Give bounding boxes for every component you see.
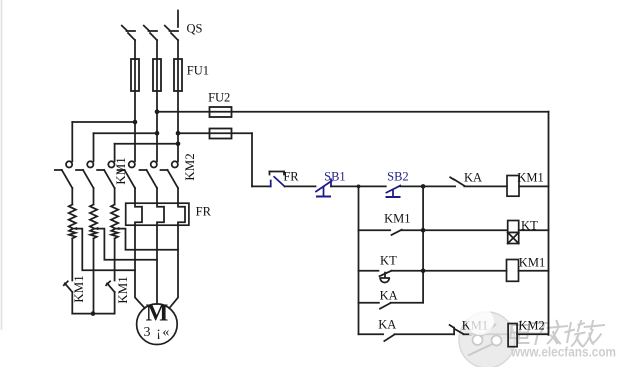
control row 1 wire left (252, 185, 271, 187)
wire row1 coil to rail (519, 185, 549, 187)
time relay coil KT (508, 221, 519, 244)
contactor KM1 main contact pole 3 (97, 161, 115, 188)
node start branch left (357, 185, 361, 189)
wire inside FU2 upper (210, 111, 232, 113)
wire row4 KA to KM1 NC (395, 333, 455, 335)
watermark pin head wash (467, 308, 494, 335)
watermark text 电子发烧友 (approximated strokes) (509, 320, 606, 347)
wire motor lead U (135, 225, 145, 308)
wire phase L3 QS to KM2 contact (177, 40, 179, 161)
label KT contact row3 (380, 254, 397, 269)
wire KM1 pole2 to resistor R2 (93, 188, 95, 205)
wire L1 branch to KM1 contactor (72, 121, 135, 123)
label FR main (196, 205, 211, 220)
wire L2 branch to KM1 contactor (94, 132, 158, 134)
control branch rail (422, 186, 424, 302)
relay contact KA (NO) row4 (384, 335, 394, 342)
wire KM2 pole3 to FR heater 3 (177, 188, 179, 203)
FR heater element 1 (135, 203, 142, 225)
resistor R3 lower section (111, 229, 118, 239)
fuse FU1 pole 2 (153, 59, 161, 91)
label KM1 shorting b vertical (115, 276, 131, 303)
label SB1 (324, 170, 346, 185)
wire phase L2 QS to KM2 contact (156, 40, 158, 161)
wire KM1 pole3 to resistor R3 (114, 188, 116, 205)
wire row1 SB2 to KA (400, 185, 455, 187)
wire inside FU2 lower (210, 132, 232, 134)
pushbutton SB2 (start, NO) (386, 186, 400, 197)
label FU1 (187, 64, 209, 79)
time relay contact KT (on-delay NO) (380, 271, 392, 283)
contactor KM1 shorting contact a (64, 281, 73, 292)
contactor interlock contact KM1 (NC) (450, 325, 464, 334)
contactor coil KM1 (507, 176, 519, 197)
relay contact KA (NO) parallel branch (380, 303, 391, 309)
wire R3 tail (114, 239, 116, 281)
relay contact KA (NO) row1 (450, 177, 464, 186)
node L3 to FU2b (176, 131, 181, 136)
thermal relay FR NC contact (270, 172, 285, 187)
contactor KM1 main contact pole 2 (76, 161, 94, 188)
node L2 branch (155, 131, 160, 136)
node L1 branch (133, 120, 138, 125)
contactor KM1 main contact pole 1 (55, 161, 73, 188)
watermark logo disc (elecfans) (459, 312, 515, 367)
control row 3b wire left (359, 302, 379, 304)
wire tap R3 to motor line W (115, 229, 178, 250)
wire L3 branch to KM1 contactor (115, 143, 178, 145)
label KM1 contactor vertical (113, 157, 129, 184)
wire below contact b (114, 292, 116, 314)
label KA row4 (378, 318, 396, 333)
wire row4 KM2 coil to rail (517, 333, 548, 335)
left edge artifact line (1, 0, 3, 330)
FR heater element 3 (178, 203, 185, 225)
disconnect switch QS pole 3 (165, 26, 178, 41)
node row3 branch (421, 269, 426, 274)
node start branch right (421, 184, 426, 189)
label SB2 (387, 169, 409, 184)
contactor coil KM2 (508, 324, 517, 347)
wire L2 to control top rail (157, 111, 549, 113)
resistor R2 lower section (90, 229, 97, 239)
thermal relay FR heater box (126, 203, 189, 225)
fuse FU2 upper (210, 107, 232, 117)
wire KM1 pole1 to resistor R1 (71, 188, 73, 205)
node L3 branch (176, 142, 181, 147)
label KM1 aux row2 (384, 211, 410, 226)
wire R1 tail (71, 239, 73, 281)
contactor KM2 main contact pole 3 (161, 161, 179, 188)
label FR control (283, 169, 298, 184)
contactor coil KM1 (second) (507, 260, 519, 282)
resistor R2 upper section (90, 205, 97, 229)
FR heater element 2 (157, 203, 164, 225)
contactor aux contact KM1 (self hold, NO) (392, 230, 402, 235)
motor letter M (146, 300, 169, 327)
motor M 3-phase (137, 304, 178, 345)
wire row3b to branch rail (391, 302, 424, 304)
label KM1 NC row4 (462, 318, 488, 333)
label KA row3b (380, 289, 398, 304)
wire motor lead W (169, 225, 178, 308)
wire L3 incoming stub (177, 11, 179, 28)
label QS (187, 21, 203, 36)
wire row4 under watermark (washed by logo) (470, 333, 508, 335)
label KM1 shorting a vertical (71, 275, 87, 302)
disconnect switch QS pole 2 (144, 26, 157, 41)
label KM1 coil row1 (517, 171, 543, 186)
resistor R1 upper section (69, 205, 76, 229)
label KT coil (521, 218, 538, 233)
contactor KM2 main contact pole 1 (118, 161, 136, 188)
wire row1 KA to KM1 coil (464, 185, 507, 187)
wire R2 tail to bottom rail (93, 239, 95, 314)
fuse FU1 pole 1 (131, 59, 139, 91)
node L2 to FU2a (155, 109, 160, 114)
resistor R1 tap arrow (73, 227, 77, 230)
wire row4 KM1 NC to KM2 coil (464, 333, 472, 335)
wire motor lead V (156, 225, 158, 304)
control row 4 wire left (359, 333, 384, 335)
wire row3 coil to rail (519, 270, 549, 272)
wire KM2 pole1 to FR heater 1 (134, 188, 136, 203)
wire below contact a (71, 292, 73, 314)
control right rail (548, 112, 550, 335)
svg-text:www.elecfans.com: www.elecfans.com (510, 345, 616, 360)
wire L3 to FU2 lower (178, 132, 252, 134)
label FU2 (208, 91, 230, 106)
wire row2 KT coil to rail (519, 229, 549, 231)
wire tap R2 to motor line V (94, 229, 157, 260)
resistor R3 upper section (111, 205, 118, 229)
node row2 branch (421, 228, 426, 233)
resistor R3 tap arrow (115, 227, 119, 230)
label KM2 contactor vertical (182, 153, 198, 180)
label KM1 coil row3 (519, 255, 545, 270)
label KM2 coil row4 (518, 319, 544, 334)
wire row2 to KT coil (402, 229, 508, 231)
wire bottom shorting rail (72, 313, 114, 315)
contactor KM2 main contact pole 2 (140, 161, 158, 188)
resistor R2 tap arrow (94, 227, 98, 230)
label KA row1 (464, 171, 482, 186)
wire FU2 lower down to control row 1 (251, 133, 253, 186)
wire KM2 pole2 to FR heater 2 (156, 188, 158, 203)
wire row1 FR to SB1 (285, 185, 316, 187)
wire tap R1 to motor line U (73, 229, 135, 271)
motor 3-phase text (143, 325, 170, 341)
control row 3 wire left (359, 270, 379, 272)
control row 2 wire left (359, 229, 391, 231)
control left rail (358, 186, 360, 334)
wire phase L1 QS to KM2 contact (134, 40, 136, 161)
contactor KM1 shorting contact b (106, 281, 115, 292)
wire row3 KT to KM1 coil (392, 270, 507, 272)
resistor R1 lower section (69, 229, 76, 239)
node bottom rail junction (91, 311, 96, 316)
fuse FU1 pole 3 (174, 59, 182, 91)
pushbutton SB1 (stop, NC) (316, 179, 332, 196)
disconnect switch QS pole 1 (122, 26, 135, 41)
wire row1 SB1 to SB2 (331, 185, 386, 187)
fuse FU2 lower (210, 129, 232, 139)
